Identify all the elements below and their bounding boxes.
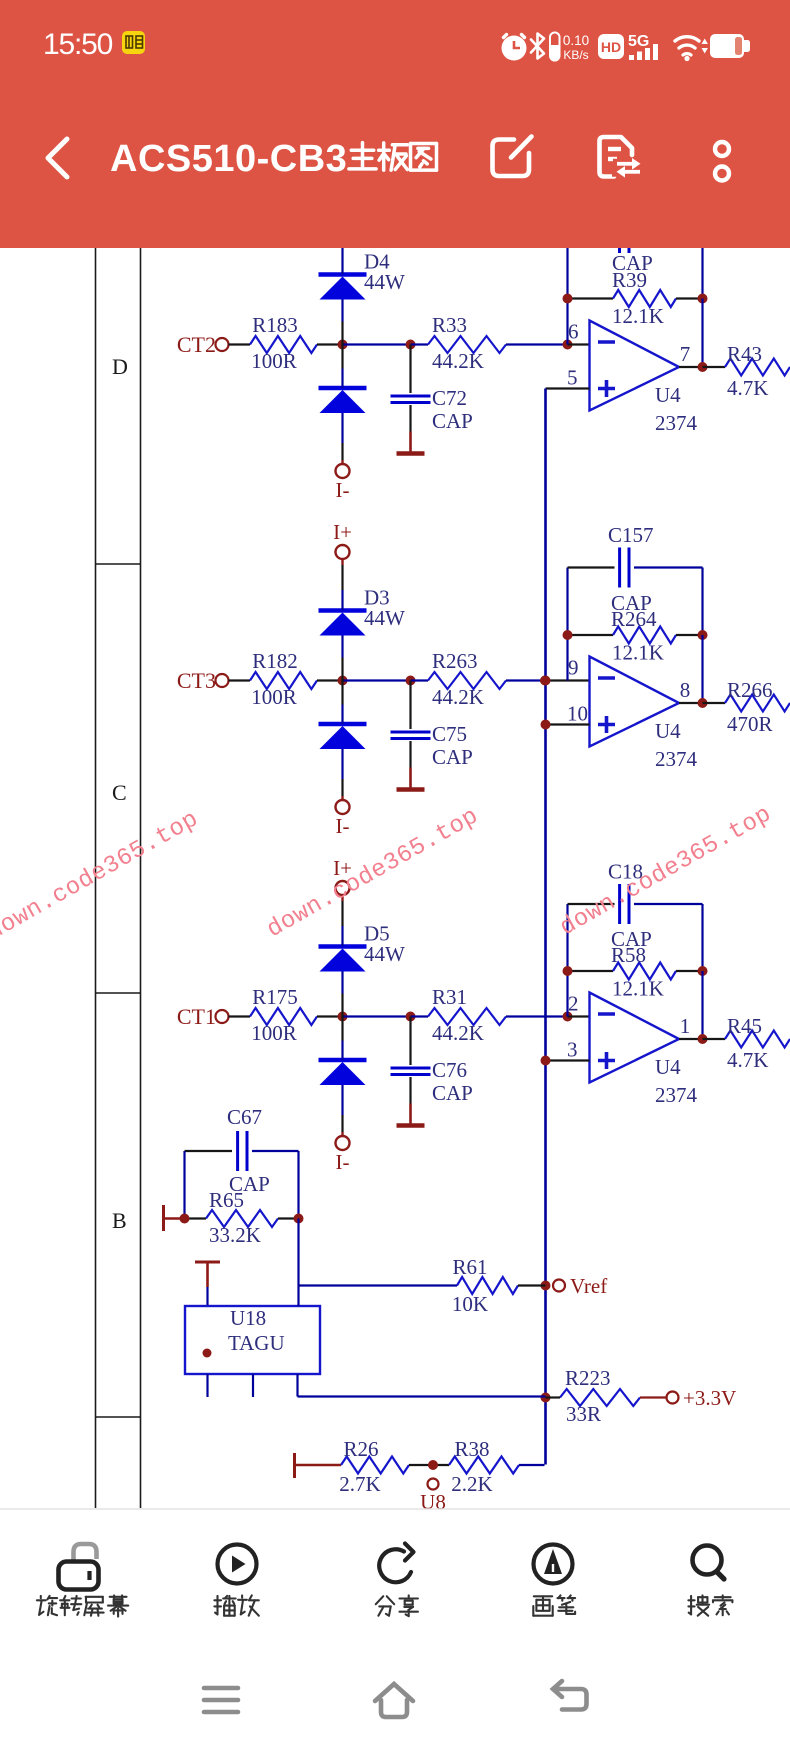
svg-text:B: B — [112, 1208, 127, 1233]
svg-text:44.2K: 44.2K — [432, 685, 484, 709]
svg-text:3: 3 — [567, 1038, 578, 1062]
svg-text:C67: C67 — [227, 1105, 262, 1129]
svg-text:7: 7 — [680, 342, 691, 366]
svg-text:R43: R43 — [727, 342, 762, 366]
svg-text:U18: U18 — [230, 1306, 266, 1330]
svg-text:12.1K: 12.1K — [612, 641, 664, 665]
svg-text:4.7K: 4.7K — [727, 376, 768, 400]
svg-text:CT3: CT3 — [177, 668, 216, 693]
svg-text:2374: 2374 — [655, 1083, 698, 1107]
svg-text:CT2: CT2 — [177, 332, 216, 357]
svg-text:2374: 2374 — [655, 747, 698, 771]
svg-text:C72: C72 — [432, 386, 467, 410]
svg-text:CAP: CAP — [432, 409, 473, 433]
svg-text:R182: R182 — [252, 649, 298, 673]
svg-text:R264: R264 — [611, 607, 657, 631]
svg-text:44W: 44W — [364, 942, 405, 966]
svg-text:HD: HD — [601, 39, 621, 55]
svg-text:470R: 470R — [727, 712, 773, 736]
svg-text:12.1K: 12.1K — [612, 304, 664, 328]
svg-text:R266: R266 — [727, 678, 773, 702]
svg-text:8: 8 — [680, 678, 691, 702]
svg-text:R45: R45 — [727, 1014, 762, 1038]
svg-text:R26: R26 — [343, 1437, 378, 1461]
svg-text:Vref: Vref — [570, 1274, 607, 1298]
svg-text:2.7K: 2.7K — [339, 1472, 380, 1496]
svg-text:U8: U8 — [420, 1490, 446, 1514]
svg-text:6: 6 — [568, 320, 579, 344]
svg-text:44.2K: 44.2K — [432, 1021, 484, 1045]
svg-text:10K: 10K — [452, 1292, 488, 1316]
svg-text:100R: 100R — [251, 349, 297, 373]
svg-text:R33: R33 — [432, 313, 467, 337]
svg-text:10: 10 — [567, 702, 588, 726]
svg-text:2: 2 — [568, 992, 579, 1016]
svg-text:C: C — [112, 780, 127, 805]
svg-text:R65: R65 — [209, 1188, 244, 1212]
svg-text:R58: R58 — [611, 943, 646, 967]
svg-text:R175: R175 — [252, 985, 298, 1009]
svg-text:TAGU: TAGU — [228, 1331, 285, 1355]
svg-text:33.2K: 33.2K — [209, 1223, 261, 1247]
svg-text:33R: 33R — [566, 1402, 601, 1426]
svg-text:CAP: CAP — [432, 745, 473, 769]
svg-text:+3.3V: +3.3V — [683, 1386, 736, 1410]
svg-text:5G: 5G — [628, 33, 649, 50]
svg-text:44.2K: 44.2K — [432, 349, 484, 373]
svg-text:KB/s: KB/s — [563, 48, 588, 62]
svg-text:I-: I- — [336, 814, 350, 838]
svg-text:R38: R38 — [454, 1437, 489, 1461]
svg-text:100R: 100R — [251, 685, 297, 709]
svg-text:R223: R223 — [565, 1366, 611, 1390]
svg-text:R31: R31 — [432, 985, 467, 1009]
svg-text:R39: R39 — [612, 268, 647, 292]
svg-text:C75: C75 — [432, 722, 467, 746]
svg-text:R263: R263 — [432, 649, 478, 673]
svg-text:U4: U4 — [655, 719, 681, 743]
svg-text:I-: I- — [336, 478, 350, 502]
svg-text:100R: 100R — [251, 1021, 297, 1045]
svg-text:I-: I- — [336, 1150, 350, 1174]
svg-text:1: 1 — [680, 1014, 691, 1038]
svg-text:C157: C157 — [608, 523, 654, 547]
svg-text:44W: 44W — [364, 606, 405, 630]
svg-text:44W: 44W — [364, 270, 405, 294]
svg-text:R61: R61 — [452, 1255, 487, 1279]
svg-text:D: D — [112, 354, 128, 379]
svg-text:R183: R183 — [252, 313, 298, 337]
svg-text:ACS510-CB3: ACS510-CB3 — [110, 138, 347, 180]
svg-text:0.10: 0.10 — [563, 33, 589, 48]
svg-text:15:50: 15:50 — [43, 28, 113, 61]
svg-text:CT1: CT1 — [177, 1004, 216, 1029]
svg-text:12.1K: 12.1K — [612, 977, 664, 1001]
svg-text:2374: 2374 — [655, 411, 698, 435]
svg-text:U4: U4 — [655, 1055, 681, 1079]
svg-text:I+: I+ — [333, 520, 352, 544]
svg-text:2.2K: 2.2K — [451, 1472, 492, 1496]
svg-text:4.7K: 4.7K — [727, 1048, 768, 1072]
svg-text:C76: C76 — [432, 1058, 467, 1082]
svg-text:U4: U4 — [655, 383, 681, 407]
svg-text:CAP: CAP — [432, 1081, 473, 1105]
svg-text:9: 9 — [568, 656, 579, 680]
svg-text:5: 5 — [567, 366, 578, 390]
